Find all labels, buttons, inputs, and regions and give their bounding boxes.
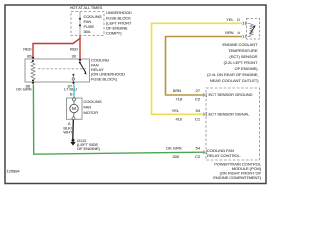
ground label bbox=[77, 138, 101, 151]
wire DK GRN relay 86 to PCM bbox=[33, 85, 204, 155]
pin 86 arrowhead bbox=[32, 82, 35, 84]
svg-text:718: 718 bbox=[175, 97, 182, 102]
relay coil bbox=[31, 60, 35, 82]
underhood fuse block (dashed box) bbox=[71, 12, 104, 36]
svg-text:410: 410 bbox=[175, 116, 182, 121]
fuse value label bbox=[84, 14, 102, 34]
svg-text:RED: RED bbox=[23, 47, 31, 52]
svg-text:RELAY CONTROL.: RELAY CONTROL. bbox=[207, 153, 241, 158]
wire YEL sensor to PCM bbox=[152, 23, 243, 114]
svg-text:M: M bbox=[72, 106, 76, 112]
svg-text:D: D bbox=[237, 17, 240, 22]
sensor connector terminals bbox=[243, 22, 247, 39]
relay internal dashed link bbox=[38, 68, 86, 70]
svg-text:ENGINE COMPARTMENT): ENGINE COMPARTMENT) bbox=[213, 175, 262, 180]
svg-text:ECT SENSOR GROUND: ECT SENSOR GROUND bbox=[209, 92, 253, 97]
svg-text:COMPT): COMPT) bbox=[106, 31, 122, 36]
svg-text:YEL: YEL bbox=[172, 108, 180, 113]
svg-text:C2: C2 bbox=[195, 97, 201, 102]
svg-text:RED: RED bbox=[70, 47, 78, 52]
PCM connector ticks bbox=[203, 93, 207, 154]
pin 87 arrowhead bbox=[72, 82, 75, 84]
motor annotation bbox=[84, 99, 102, 115]
pin 30 arrowhead bbox=[79, 59, 82, 62]
node COOLING FAN RELAY CONTROL bbox=[207, 148, 241, 158]
svg-text:MOTOR: MOTOR bbox=[84, 110, 99, 115]
svg-text:A: A bbox=[237, 30, 240, 35]
wire BLK/WHT motor to ground bbox=[72, 120, 75, 139]
svg-text:FAN: FAN bbox=[84, 105, 92, 110]
svg-text:(2.4L ON REAR OF ENGINE,: (2.4L ON REAR OF ENGINE, bbox=[207, 72, 258, 77]
motor M cooling fan motor bbox=[67, 98, 83, 120]
PCM dashed box bbox=[206, 88, 260, 160]
wire label BLK/WHT bbox=[63, 126, 73, 135]
svg-text:(ECT) SENSOR: (ECT) SENSOR bbox=[229, 54, 257, 59]
wire LT BLU relay 87 to motor bbox=[73, 85, 75, 99]
fuse block annotation bbox=[106, 10, 132, 35]
svg-text:BRN: BRN bbox=[225, 30, 233, 35]
svg-text:HOT AT ALL TIMES: HOT AT ALL TIMES bbox=[70, 6, 103, 10]
ground G112 bbox=[70, 139, 75, 146]
wire RED from fuse to relay pins 85 and 30 bbox=[33, 36, 80, 60]
svg-text:B: B bbox=[70, 92, 73, 97]
svg-text:335: 335 bbox=[172, 154, 179, 159]
svg-text:NEAR COOLANT OUTLET): NEAR COOLANT OUTLET) bbox=[210, 78, 259, 83]
relay annotation bbox=[91, 58, 125, 82]
svg-text:ECT SENSOR SIGNAL: ECT SENSOR SIGNAL bbox=[209, 111, 251, 116]
wire BRN sensor to PCM bbox=[166, 37, 243, 96]
relay switch contact bbox=[72, 62, 87, 83]
PCM annotation bbox=[213, 162, 262, 180]
svg-text:OF ENGINE): OF ENGINE) bbox=[235, 66, 259, 71]
svg-text:ENGINE COOLANT: ENGINE COOLANT bbox=[222, 42, 258, 47]
svg-text:OF ENGINE): OF ENGINE) bbox=[77, 146, 101, 151]
relay K cooling fan relay box bbox=[25, 59, 90, 82]
svg-text:C1: C1 bbox=[195, 116, 201, 121]
ECT sensor annotation bbox=[207, 42, 259, 83]
svg-text:30A: 30A bbox=[84, 29, 91, 34]
svg-text:C2: C2 bbox=[195, 154, 201, 159]
svg-text:WHT: WHT bbox=[63, 130, 73, 135]
border frame (decorative) bbox=[5, 5, 266, 184]
svg-text:DK GRN: DK GRN bbox=[16, 87, 31, 92]
svg-text:YEL: YEL bbox=[226, 17, 234, 22]
svg-text:BRN: BRN bbox=[173, 88, 181, 93]
fuse COOLING FAN FUSE 30A bbox=[79, 12, 81, 36]
svg-text:125684: 125684 bbox=[7, 169, 21, 174]
svg-text:(2.2L LEFT FRONT: (2.2L LEFT FRONT bbox=[224, 60, 258, 65]
ECT sensor dashed box bbox=[247, 18, 260, 39]
svg-text:FUSE BLOCK): FUSE BLOCK) bbox=[91, 76, 118, 81]
pin 85 arrowhead bbox=[32, 57, 35, 59]
svg-text:DK GRN: DK GRN bbox=[166, 146, 181, 151]
svg-text:TEMPERATURE: TEMPERATURE bbox=[228, 48, 258, 53]
svg-text:COOLING: COOLING bbox=[84, 99, 102, 104]
thermistor symbol bbox=[248, 23, 256, 36]
